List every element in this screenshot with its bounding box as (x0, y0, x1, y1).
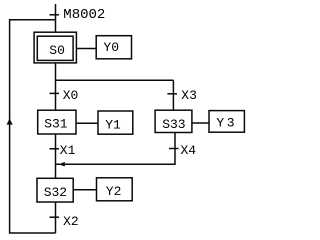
svg-text:X3: X3 (181, 88, 197, 103)
svg-text:X4: X4 (181, 143, 197, 158)
svg-text:X1: X1 (60, 143, 76, 158)
svg-text:Y1: Y1 (105, 117, 121, 132)
svg-text:S33: S33 (162, 117, 185, 132)
svg-text:X0: X0 (63, 88, 79, 103)
svg-text:S0: S0 (49, 43, 65, 58)
svg-text:M8002: M8002 (63, 7, 105, 23)
svg-text:S32: S32 (44, 185, 67, 200)
svg-text:S31: S31 (44, 117, 68, 132)
svg-text:Y0: Y0 (103, 40, 119, 55)
svg-text:Y3: Y3 (216, 116, 237, 131)
svg-text:Y2: Y2 (106, 184, 122, 199)
svg-text:X2: X2 (63, 214, 79, 229)
